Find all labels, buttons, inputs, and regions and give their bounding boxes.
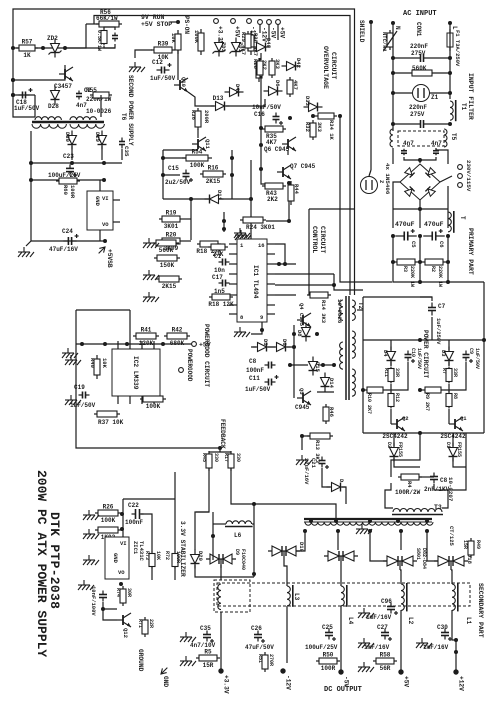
label T1 bbox=[460, 103, 467, 111]
resistor R50 100R bbox=[316, 652, 340, 673]
svg-text:1uF/50V: 1uF/50V bbox=[70, 402, 96, 409]
node junction bbox=[80, 342, 84, 346]
wire r24 to r44 bbox=[266, 220, 289, 222]
wire snubber right bbox=[434, 433, 466, 490]
svg-text:C17: C17 bbox=[212, 274, 223, 281]
wire c22 right bbox=[141, 514, 152, 552]
transistor Q9 C3457 bbox=[54, 67, 73, 90]
wire stage top left bbox=[362, 297, 364, 433]
transistor Q2 2SC4242 bbox=[382, 417, 408, 440]
node junction bbox=[311, 114, 315, 118]
svg-text:VO: VO bbox=[118, 569, 125, 576]
ground gnd lm339 c bbox=[62, 348, 78, 358]
svg-text:2K15: 2K15 bbox=[162, 283, 177, 290]
wire bridge bottom bbox=[419, 200, 421, 209]
svg-text:2K2: 2K2 bbox=[267, 196, 278, 203]
svg-text:D18: D18 bbox=[466, 554, 473, 565]
wire bridge left out bbox=[393, 182, 400, 209]
svg-text:CON1: CON1 bbox=[415, 22, 422, 37]
IC IC1 TL494 bbox=[237, 239, 267, 322]
diode ZD2 zener bbox=[49, 39, 62, 58]
capacitor C7 1uF/250V bbox=[428, 303, 436, 316]
svg-text:100uF/25V: 100uF/25V bbox=[305, 644, 338, 651]
label 470uF b bbox=[424, 221, 444, 228]
capacitor C21 22uF/16V bbox=[319, 457, 330, 470]
label R12 5R6 bbox=[394, 393, 400, 402]
wire snubber join bbox=[419, 476, 434, 478]
wire t3 prim left bbox=[385, 483, 393, 508]
wire d2 leads bbox=[393, 433, 395, 446]
node junction bbox=[252, 572, 256, 576]
svg-text:CT/125: CT/125 bbox=[448, 526, 455, 547]
inductor T6 primary left bbox=[35, 117, 61, 120]
label C17 1n5 bbox=[212, 274, 225, 295]
wire mid rail down bbox=[419, 262, 421, 282]
resistor R18 27K bbox=[196, 241, 222, 255]
ground gnd below C24 rail bbox=[18, 247, 34, 257]
label C7 1uF/250V bbox=[435, 303, 446, 345]
resistor R11 33R bbox=[388, 367, 394, 384]
label D9 F10C040 bbox=[234, 549, 246, 570]
node junction bbox=[218, 446, 222, 450]
label 10-0026 bbox=[86, 108, 112, 115]
wire r20 join bbox=[183, 240, 191, 242]
bridge diode D60 bbox=[425, 168, 435, 178]
node junction bbox=[292, 345, 296, 349]
capacitor C33 4n7/10V bbox=[203, 631, 214, 644]
svg-text:R32: R32 bbox=[304, 122, 311, 132]
svg-text:150K: 150K bbox=[160, 262, 175, 269]
wire r45 down bbox=[195, 468, 209, 550]
svg-text:220nF: 220nF bbox=[409, 104, 427, 111]
capacitor C12 1uF/50V bbox=[157, 63, 172, 74]
svg-text:3K3: 3K3 bbox=[274, 59, 281, 70]
resistor R39 10K bbox=[151, 41, 175, 62]
label OVERVOLTAGE CIRCUIT bbox=[322, 46, 337, 89]
wire feedback down bbox=[219, 448, 221, 452]
resistor R36b 200R bbox=[195, 108, 201, 130]
svg-text:L3: L3 bbox=[293, 593, 300, 601]
resistor R18b 12K bbox=[208, 294, 234, 308]
node junction bbox=[252, 502, 256, 506]
node tap bbox=[396, 519, 400, 523]
diode D16 bbox=[327, 483, 346, 492]
svg-text:R4: R4 bbox=[406, 481, 413, 488]
wire c1 leads2 bbox=[424, 57, 450, 59]
svg-text:L1: L1 bbox=[465, 617, 472, 625]
resistor R41 120K bbox=[133, 327, 159, 348]
label D3 bbox=[440, 350, 447, 357]
capacitor C2 4n7 bbox=[76, 91, 82, 100]
label PRIMARY PART bbox=[467, 228, 474, 275]
node junction bbox=[11, 46, 15, 50]
svg-text:C15: C15 bbox=[168, 165, 179, 172]
ground gnd out c bbox=[358, 662, 374, 672]
wire pin right 295 bbox=[275, 294, 296, 296]
resistor R25b 1K02 bbox=[95, 527, 121, 541]
wire right rail bbox=[447, 262, 449, 282]
inductor T2 winding primary bbox=[340, 300, 343, 320]
ground gnd 3v3 a bbox=[180, 632, 196, 642]
label R4 bbox=[406, 481, 413, 488]
wire L4 down bbox=[340, 606, 342, 670]
inductor T2 winding sec3 bbox=[352, 369, 355, 396]
svg-text:C22: C22 bbox=[128, 502, 139, 509]
svg-text:47uF/16V: 47uF/16V bbox=[49, 246, 78, 253]
resistor R22 100K bbox=[198, 29, 204, 55]
wire D13 line bbox=[195, 103, 214, 106]
wire standby rail y48 bbox=[13, 47, 115, 49]
terminal selector 230V bbox=[458, 165, 463, 170]
wire r72 down bbox=[174, 567, 176, 580]
node junction bbox=[161, 173, 165, 177]
label C27 bbox=[364, 624, 390, 651]
inductor L4 choke bbox=[341, 585, 347, 607]
svg-text:C10: C10 bbox=[410, 348, 416, 357]
svg-text:L2: L2 bbox=[407, 617, 414, 625]
svg-text:C11: C11 bbox=[249, 375, 260, 382]
svg-text:100K: 100K bbox=[193, 30, 200, 44]
node junction bbox=[446, 280, 450, 284]
resistor R53 1.5K/1W bbox=[101, 29, 107, 46]
label R55 220R/1W bbox=[86, 87, 112, 103]
node junction bbox=[29, 161, 33, 165]
resistor R72 100R bbox=[172, 552, 178, 569]
node junction bbox=[29, 178, 33, 182]
label L1 bbox=[465, 617, 472, 625]
wire pg bottom rail bbox=[76, 344, 220, 448]
capacitor C35 bbox=[119, 138, 125, 149]
node junction bbox=[230, 156, 234, 160]
label R30 4K7 bbox=[292, 80, 299, 90]
label R46 1K5 bbox=[328, 407, 335, 417]
node junction bbox=[418, 388, 422, 392]
label R32 3K3 bbox=[304, 122, 323, 133]
transistor Q7 C945 bbox=[277, 165, 291, 179]
svg-text:1uF/50V: 1uF/50V bbox=[245, 386, 271, 393]
ground gnd r17 bbox=[143, 292, 159, 302]
wire c2x leads bbox=[393, 123, 420, 125]
node junction bbox=[361, 388, 365, 392]
IC IC5 TL431 bbox=[105, 537, 129, 579]
wire y310 drop bbox=[129, 310, 131, 341]
svg-text:Q10: Q10 bbox=[180, 77, 187, 87]
wire B+ top loop bbox=[13, 9, 355, 295]
wire q10 base bbox=[135, 50, 152, 58]
wire stage bottom bbox=[363, 432, 484, 434]
terminal +3.3V terminal bbox=[214, 19, 224, 45]
label 3.3V STABILIZER bbox=[179, 521, 186, 577]
wire ps-on stub bbox=[170, 21, 178, 23]
wire c7 bot bbox=[431, 317, 433, 340]
node junction bbox=[292, 332, 296, 336]
svg-text:D41: D41 bbox=[234, 84, 241, 95]
diode D1 FR155 bbox=[449, 443, 458, 462]
capacitor C8b 2nF/1KV bbox=[430, 473, 438, 484]
label T6 bbox=[120, 113, 127, 121]
wire r53 c14 join bbox=[104, 44, 115, 48]
svg-text:100K: 100K bbox=[101, 517, 116, 524]
svg-text:330: 330 bbox=[213, 453, 219, 462]
label T5 bbox=[450, 133, 457, 141]
label D6 bbox=[281, 339, 288, 346]
wire L6 left bbox=[213, 523, 226, 525]
wire d9 down bbox=[220, 565, 222, 580]
label R44 100K bbox=[293, 184, 300, 195]
wire driver mid bbox=[251, 346, 256, 348]
inductor L6 bbox=[225, 521, 253, 527]
node junction bbox=[120, 512, 124, 516]
wire c10 join bbox=[386, 362, 408, 390]
label R49 15R bbox=[462, 540, 481, 549]
diode D5 bbox=[253, 343, 272, 352]
inductor T1 choke bbox=[450, 100, 456, 121]
node junction bbox=[425, 529, 429, 533]
svg-text:D11: D11 bbox=[216, 190, 223, 201]
svg-text:R73: R73 bbox=[144, 551, 150, 560]
label ZD2 bbox=[47, 35, 58, 42]
svg-text:D4: D4 bbox=[382, 350, 389, 357]
svg-text:R44: R44 bbox=[293, 184, 300, 195]
svg-text:R40: R40 bbox=[89, 358, 96, 368]
svg-text:D42: D42 bbox=[295, 58, 302, 68]
node junction bbox=[63, 46, 67, 50]
svg-text:D15: D15 bbox=[314, 362, 321, 373]
capacitor C1 10n bbox=[219, 259, 230, 266]
node junction bbox=[11, 78, 15, 82]
svg-text:R41: R41 bbox=[141, 327, 152, 334]
label R10 2K7 bbox=[366, 393, 372, 414]
svg-text:ZD3: ZD3 bbox=[220, 42, 227, 53]
label D10 bbox=[298, 542, 305, 552]
svg-text:4x 1N5406: 4x 1N5406 bbox=[384, 163, 391, 195]
ground gnd tl431 c bbox=[83, 555, 99, 565]
label AC INPUT bbox=[403, 10, 437, 18]
wire y80 rail bbox=[13, 65, 65, 80]
wire tap2 bbox=[337, 531, 339, 550]
wire L1 down bbox=[452, 610, 456, 672]
inductor L7 3.3V toroid bbox=[218, 584, 221, 610]
label C24 bbox=[49, 228, 78, 253]
svg-text:+12V: +12V bbox=[458, 676, 465, 691]
node junction bbox=[418, 260, 422, 264]
resistor R17b 330R bbox=[228, 451, 234, 471]
resistor R38 4K7 bbox=[248, 31, 254, 55]
wire x213 down bbox=[212, 512, 214, 560]
transistor Q11 C945 bbox=[192, 137, 206, 151]
diode D13 bbox=[211, 95, 230, 111]
wire r73 down bbox=[151, 567, 153, 580]
label C16 10uF/50V bbox=[252, 104, 281, 118]
wire d15 rail bbox=[290, 364, 308, 366]
wire caps to bleeders l bbox=[392, 236, 394, 262]
label D18 bbox=[466, 554, 473, 565]
svg-text:200W PC ATX POWER SUPPLY: 200W PC ATX POWER SUPPLY bbox=[34, 470, 49, 657]
wire to caps bbox=[392, 209, 394, 228]
label C96 bbox=[366, 598, 392, 621]
wire d82 to L2 bbox=[400, 570, 401, 584]
svg-text:C25: C25 bbox=[322, 624, 333, 631]
svg-text:D28: D28 bbox=[48, 103, 59, 110]
node junction bbox=[102, 178, 106, 182]
node junction bbox=[368, 529, 372, 533]
diode ZD1 bbox=[230, 38, 243, 57]
node junction bbox=[176, 20, 180, 24]
resistor R29b 100K bbox=[140, 396, 166, 410]
wire r44 bottom bbox=[288, 201, 290, 221]
label L4 bbox=[347, 617, 354, 625]
wire pin right 285 bbox=[275, 284, 334, 286]
wire q11 col bbox=[197, 129, 199, 138]
capacitor C5 470uF bbox=[395, 229, 417, 241]
label R71 22R bbox=[137, 619, 154, 628]
svg-text:POWERGOOD CIRCUIT: POWERGOOD CIRCUIT bbox=[203, 324, 210, 387]
node junction bbox=[418, 431, 422, 435]
wire l7 to 3.3 bbox=[220, 612, 222, 669]
resistor R30 4K7 bbox=[287, 77, 293, 97]
wire y caps join bbox=[404, 157, 436, 160]
wire shield to Z bbox=[369, 170, 371, 176]
svg-text:+5V: +5V bbox=[403, 676, 410, 687]
wire ovp stubs2 bbox=[268, 24, 270, 40]
label POWER CIRCUIT bbox=[422, 330, 429, 379]
node junction bbox=[211, 534, 215, 538]
node junction bbox=[300, 434, 304, 438]
label R17 330R bbox=[223, 453, 241, 462]
label R27 3K3 bbox=[274, 59, 281, 70]
label C1 10n bbox=[214, 253, 225, 274]
capacitor C17 1n5 bbox=[219, 280, 230, 287]
label R9 2K7 bbox=[424, 393, 430, 411]
node junction bbox=[336, 529, 340, 533]
node junction bbox=[418, 207, 422, 211]
label ZD1 bbox=[237, 42, 244, 53]
svg-text:4n7: 4n7 bbox=[403, 140, 414, 147]
terminal +5V ovp terminal bbox=[276, 20, 286, 39]
node junction bbox=[332, 283, 336, 287]
label C2 4n7 bbox=[76, 87, 92, 109]
svg-text:R42: R42 bbox=[172, 327, 183, 334]
label 10nF/100V bbox=[90, 586, 97, 616]
resistor R31 10K bbox=[175, 30, 181, 54]
svg-text:C1: C1 bbox=[214, 253, 222, 260]
svg-text:+5V: +5V bbox=[234, 26, 241, 37]
wire sec to rails bbox=[71, 146, 73, 160]
label R14 3K3 bbox=[320, 300, 327, 324]
label C5 bbox=[410, 241, 417, 248]
wire rail y163 bbox=[31, 162, 122, 164]
resistor R19 3K01 bbox=[159, 210, 183, 231]
wire tap5 bbox=[427, 531, 438, 561]
node junction bbox=[321, 363, 325, 367]
svg-text:100nF: 100nF bbox=[246, 367, 264, 374]
label INPUT FILTER bbox=[467, 73, 474, 120]
label C35 bbox=[123, 146, 130, 157]
svg-text:30R: 30R bbox=[126, 588, 132, 597]
svg-text:R19: R19 bbox=[166, 210, 177, 217]
label 230V/115V bbox=[465, 160, 472, 192]
diode ZD3 bbox=[213, 38, 226, 57]
label SHIELD bbox=[358, 20, 365, 43]
svg-text:100R: 100R bbox=[69, 185, 76, 199]
label C23 bbox=[48, 153, 81, 179]
label D30 bbox=[64, 132, 71, 142]
capacitor C19 1uF/50V bbox=[79, 392, 90, 399]
svg-text:L4: L4 bbox=[347, 617, 354, 625]
node frame bbox=[11, 78, 15, 82]
resistor R51 270R bbox=[262, 652, 268, 672]
node junction bbox=[391, 56, 395, 60]
label R28 3K3 bbox=[252, 59, 259, 70]
label C25 bbox=[305, 624, 338, 651]
svg-text:275V: 275V bbox=[410, 111, 425, 118]
label L3 bbox=[293, 593, 300, 601]
svg-text:D6: D6 bbox=[281, 339, 288, 346]
label D5 bbox=[262, 339, 269, 346]
capacitor C2x 220nF bbox=[421, 120, 424, 128]
capacitor C8 100nF bbox=[265, 362, 276, 369]
svg-text:10K: 10K bbox=[101, 358, 108, 369]
label ZD3 bbox=[220, 42, 227, 53]
ground gnd out b bbox=[358, 638, 374, 648]
svg-text:2u2/50V: 2u2/50V bbox=[165, 179, 191, 186]
node junction bbox=[101, 607, 105, 611]
svg-text:C6: C6 bbox=[438, 241, 445, 248]
wire R56 left lead bbox=[86, 23, 99, 25]
svg-text:DTK PTP-2038: DTK PTP-2038 bbox=[47, 512, 62, 609]
label C15 bbox=[165, 165, 191, 186]
node junction bbox=[369, 20, 373, 24]
svg-text:C23: C23 bbox=[63, 153, 74, 160]
terminal +5VSB bbox=[97, 245, 113, 268]
svg-text:560K: 560K bbox=[159, 247, 174, 254]
wire c1 leads bbox=[393, 57, 420, 59]
svg-text:4K7: 4K7 bbox=[292, 80, 299, 90]
wire L to bridge bbox=[436, 148, 448, 164]
resistor R12 5R6 bbox=[388, 392, 394, 409]
ground gnd out d bbox=[416, 638, 432, 648]
ground gnd lm339 a bbox=[65, 355, 81, 365]
wire L2 down bbox=[400, 610, 402, 670]
node junction bbox=[391, 122, 395, 126]
transistor Q1 2SC4242 bbox=[440, 417, 466, 440]
label Q1 bbox=[460, 415, 467, 422]
svg-text:Q4 C945: Q4 C945 bbox=[298, 303, 305, 327]
resistor R40 560K bbox=[153, 240, 179, 254]
svg-text:C24: C24 bbox=[62, 228, 73, 235]
svg-text:Q2: Q2 bbox=[402, 415, 409, 422]
svg-text:R28: R28 bbox=[252, 59, 259, 70]
bridge rectifier B1 frame bbox=[400, 164, 440, 200]
inductor T3 primary bbox=[392, 509, 443, 515]
svg-text:+5V: +5V bbox=[279, 27, 286, 38]
svg-text:2SC4242: 2SC4242 bbox=[382, 433, 408, 440]
bridge diode D59 bbox=[405, 168, 415, 178]
svg-text:220K 1W: 220K 1W bbox=[409, 266, 415, 287]
wire r2 leads bbox=[393, 72, 412, 74]
label T2 bbox=[357, 302, 364, 310]
diode D15 bbox=[309, 357, 318, 376]
node junction bbox=[277, 262, 281, 266]
svg-text:200R: 200R bbox=[203, 110, 210, 124]
svg-text:C16: C16 bbox=[254, 111, 265, 118]
svg-text:R60: R60 bbox=[62, 185, 69, 195]
svg-text:SECONDARY PART: SECONDARY PART bbox=[477, 583, 484, 638]
label T bbox=[459, 216, 466, 220]
svg-text:Q7 C945: Q7 C945 bbox=[290, 163, 316, 170]
svg-text:R26: R26 bbox=[103, 504, 114, 511]
label R37 10K bbox=[98, 419, 124, 426]
